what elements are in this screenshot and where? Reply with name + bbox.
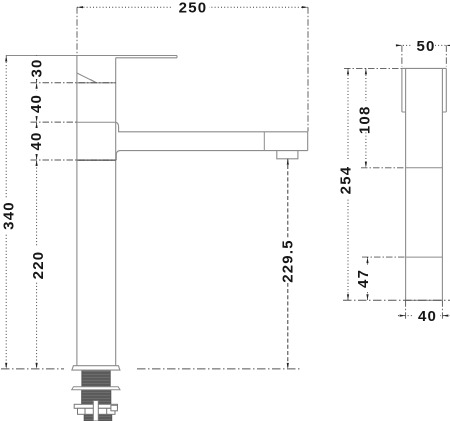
dimension 47 line — [367, 257, 369, 300]
extension line at 47 joint — [362, 256, 406, 258]
dimension 50 arrows — [396, 44, 450, 46]
side view cap top edge with extension — [344, 67, 402, 69]
svg-text:47: 47 — [355, 269, 372, 288]
svg-text:40: 40 — [418, 308, 437, 325]
dimension 340 arrows — [5, 56, 7, 369]
side view joint line at 47 — [406, 256, 443, 258]
handle lever top edge + left extension line — [6, 55, 177, 57]
outlet nozzle — [277, 151, 298, 159]
centre slot of shank — [93, 401, 98, 421]
threaded shank upper section — [82, 370, 110, 387]
dimension 47 arrows — [366, 257, 368, 300]
handle pivot chamfer — [77, 73, 96, 83]
dimension 50 extensions — [402, 45, 446, 66]
spout shoulder and top edge — [116, 122, 308, 132]
washer plate — [72, 387, 120, 390]
dimension 229.5 line — [287, 159, 289, 369]
side view cap bottom rims — [402, 111, 446, 113]
base flange — [72, 366, 120, 370]
side view joint line at 108 — [406, 167, 443, 169]
chain arrow at mounting plane — [36, 363, 38, 369]
dimension 50 line — [397, 44, 450, 46]
svg-text:220: 220 — [30, 251, 47, 280]
extension line at 108 joint — [361, 167, 406, 169]
body left edge — [76, 56, 78, 366]
body joint line mid — [77, 121, 116, 123]
svg-text:50: 50 — [416, 38, 435, 55]
dimension 229.5 arrows — [287, 159, 289, 369]
side view body left edge — [405, 68, 407, 300]
svg-text:250: 250 — [179, 0, 208, 17]
locknut right step — [111, 405, 118, 411]
locknut slot lines — [85, 408, 107, 414]
dimension 108 arrows — [365, 68, 367, 167]
svg-text:254: 254 — [338, 166, 355, 195]
handle lever bottom edge — [116, 57, 177, 59]
locknut top bar — [74, 404, 117, 408]
extension line y83 — [31, 82, 116, 84]
spout bottom edge with fillet — [116, 151, 307, 161]
svg-text:40: 40 — [28, 94, 45, 113]
threaded shank mid section — [82, 390, 111, 405]
locknut body — [78, 408, 116, 414]
extension line y160 — [31, 159, 116, 161]
side view bottom face — [406, 299, 443, 301]
dimension 250 left extension — [76, 7, 78, 55]
dimension 254 arrows — [347, 68, 349, 300]
threaded shank bottom section — [84, 414, 112, 421]
svg-text:30: 30 — [29, 58, 46, 77]
spout right end — [307, 132, 309, 151]
mounting plane line left of body — [1, 368, 64, 370]
aerator housing division — [263, 132, 265, 151]
dimension 250 line — [77, 6, 308, 8]
dimension 254 line — [347, 68, 349, 300]
text mask patches — [0, 0, 440, 324]
body joint line under handle — [77, 82, 116, 84]
svg-text:108: 108 — [357, 105, 374, 134]
dimension 40 extensions — [406, 300, 443, 320]
dimension 250 right extension — [307, 7, 309, 131]
dimension 250 arrows — [77, 6, 308, 8]
dimension 340 line — [5, 56, 7, 369]
svg-text:229.5: 229.5 — [280, 239, 297, 283]
chain arrow pair at y160 — [36, 154, 38, 166]
chain arrows at y55 — [36, 56, 38, 62]
handle pivot chamfer inner tick — [91, 79, 97, 82]
dimension 40 arrows — [400, 315, 449, 317]
dimension chain line 30/40/40/220 — [36, 56, 38, 369]
svg-text:340: 340 — [1, 201, 18, 230]
dimension 108 line — [365, 68, 367, 167]
body right edge — [115, 58, 117, 366]
side view cap right edge — [445, 68, 447, 112]
side view mounting plane line — [343, 299, 450, 301]
mounting plane line right of body — [137, 368, 300, 370]
side view body right edge — [441, 68, 443, 300]
chain arrow pair at y122 — [36, 116, 38, 128]
extension line y122 — [31, 121, 77, 123]
body joint line at spout base — [77, 159, 116, 161]
dimension 40 line (side) — [398, 315, 450, 317]
chain arrow pair at y83 — [36, 77, 38, 89]
side view cap left edge — [401, 68, 403, 112]
svg-text:40: 40 — [28, 131, 45, 150]
handle lever right end — [176, 56, 178, 58]
